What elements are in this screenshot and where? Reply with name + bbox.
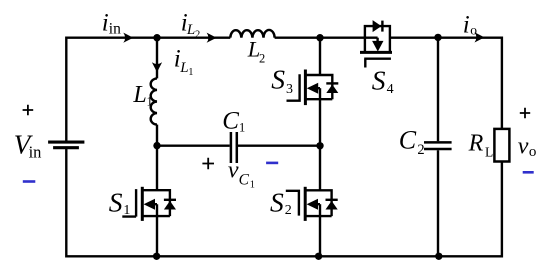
wire: below RL down, bottom rail, left vertical up to battery [66,149,502,256]
node dot: bottom S1 junction [153,253,160,260]
svg-text:1: 1 [147,95,153,109]
current arrow i_L1 [152,62,162,72]
polarity minus C1 (blue) [266,162,278,165]
capacitor C1 left plate [230,132,233,163]
polarity minus vo (blue) [523,171,534,174]
wire: S2 source down to bottom rail [319,204,321,256]
svg-text:2: 2 [285,203,292,218]
svg-text:2: 2 [259,51,265,65]
capacitor C1 right plate [236,132,239,163]
svg-text:C: C [239,171,250,188]
capacitor C2 top plate [424,141,452,144]
svg-text:L: L [485,144,493,159]
svg-text:i: i [463,11,470,38]
wire: S4 to output corner, down to RL [390,38,502,129]
svg-text:L: L [179,60,188,76]
svg-text:C: C [222,107,239,134]
svg-text:v: v [228,157,239,183]
svg-text:S: S [271,64,285,95]
polarity minus Vin (blue) [23,180,36,183]
polarity plus C1 [202,158,214,170]
svg-text:1: 1 [123,203,130,218]
node dot: bottom C2 junction [435,253,442,260]
svg-text:2: 2 [417,142,424,158]
svg-text:S: S [372,65,386,96]
svg-text:L: L [186,22,195,38]
svg-text:in: in [29,143,42,162]
svg-text:v: v [518,134,529,160]
node dot: top L1 junction [153,34,160,41]
battery Vin bottom plate [53,146,79,149]
svg-text:2: 2 [195,29,200,40]
svg-text:S: S [109,186,123,217]
svg-text:1: 1 [188,67,193,78]
wire: left branch (battery top to top-left corner to L2 start) [66,38,230,141]
svg-text:1: 1 [250,179,255,190]
wire: mid wire right segment C1 to right mid node [238,144,320,146]
svg-text:1: 1 [239,121,245,135]
current arrow i_o [475,32,485,42]
svg-text:o: o [470,23,477,38]
svg-text:4: 4 [387,82,394,97]
svg-text:C: C [399,126,417,155]
node dot: mid right junction [316,142,323,149]
resistor RL [494,129,509,162]
svg-text:L: L [132,82,146,108]
capacitor C2 bottom plate [424,148,452,151]
wire: L1 branch from top node to coil [156,38,158,79]
svg-text:i: i [102,10,109,37]
svg-text:R: R [468,131,484,157]
inductor L1 [151,78,157,124]
transistor Q S3 [287,70,339,106]
wire: C2 branch bottom [437,150,439,256]
svg-text:in: in [109,21,121,38]
battery Vin top plate [48,141,84,144]
transistor Q S2 [286,187,338,221]
wire: mid wire left segment to C1 [157,144,230,146]
node dot: mid left junction [153,142,160,149]
node dot: bottom S2 junction [315,253,322,260]
polarity plus vo [520,108,530,118]
svg-text:3: 3 [286,82,293,97]
node dot: top S3 junction [316,34,323,41]
svg-text:S: S [270,186,284,217]
wire: top middle (L2 to S4 source stub) [275,37,378,39]
transistor Q S4 [360,20,392,67]
current arrow i_L2 [207,33,217,43]
wire: S2 drain from mid node [319,146,321,191]
current arrow i_in [123,33,133,43]
node dot: top C2 junction [434,34,441,41]
svg-text:o: o [529,144,537,160]
wire: C2 branch top [437,38,439,142]
wire: S3 drain from top node [319,38,321,75]
transistor Q S1 [122,146,176,257]
polarity plus Vin [23,105,34,116]
inductor L2 [230,30,274,38]
wire: S3 source down to mid node [319,88,321,146]
wire: L1 coil to mid node [156,125,158,146]
